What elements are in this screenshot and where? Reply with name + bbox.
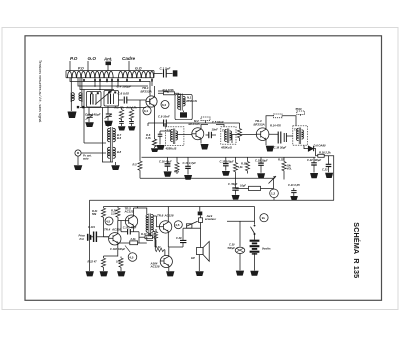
chassis blob under C19: [257, 173, 265, 178]
wire tap x107: [106, 78, 108, 82]
capacitor C101: [94, 232, 109, 243]
diode D6 label: [314, 143, 326, 147]
svg-text:C.16 40µF: C.16 40µF: [159, 159, 172, 163]
svg-text:5510: 5510: [296, 107, 302, 111]
chassis blob under socket: [74, 165, 83, 170]
svg-text:100: 100: [116, 260, 121, 264]
wire tap x127: [126, 78, 128, 82]
chassis blob under R13/C28: [232, 188, 238, 195]
resistor R23: [119, 257, 123, 272]
chassis blob under TR2: [201, 144, 209, 150]
svg-text:P.U.: P.U.: [80, 237, 85, 241]
svg-text:4,5: 4,5: [106, 219, 111, 223]
battery label: [262, 246, 271, 250]
wire TR5 emitter down: [133, 228, 135, 232]
wire TR4 base: [104, 233, 110, 237]
C12 label: [212, 128, 219, 132]
resistor R25: [154, 229, 157, 247]
svg-text:C.103 47nF: C.103 47nF: [123, 226, 137, 230]
svg-text:B.8: B.8: [117, 150, 122, 154]
wire C1 to antenna terminal: [166, 73, 172, 75]
switch: [251, 225, 256, 240]
svg-text:R.25: R.25: [149, 233, 155, 237]
IF transformer T3 (dashed box): [221, 127, 236, 144]
svg-text:C. 50µF: C. 50µF: [228, 182, 238, 186]
pot wiper arrow: [269, 176, 277, 184]
resistor R9 (box): [130, 241, 147, 245]
capacitor C22 label: [307, 158, 321, 162]
wire TR2 emitter down: [200, 141, 202, 144]
svg-text:C.17 4,7µF: C.17 4,7µF: [183, 161, 197, 165]
transistor TR1: [146, 95, 157, 108]
variable capacitor C2 (tuning gang section 1): [87, 92, 102, 108]
svg-text:R.24: R.24: [155, 245, 161, 249]
capacitor C6: [124, 97, 127, 104]
svg-text:BF233A: BF233A: [189, 122, 200, 126]
trimmer C3: [86, 107, 94, 122]
wire T2 out to TR2: [178, 134, 192, 136]
wire y100 C4 to C6: [119, 99, 124, 101]
junction square b: [82, 106, 84, 108]
wire lever to C29: [183, 227, 186, 229]
node label Cadre: [122, 56, 135, 61]
transistor TR6 label: [157, 213, 174, 217]
wire x148 down: [147, 123, 149, 126]
T3 label 455: [220, 146, 232, 150]
R15 label: [278, 158, 292, 171]
svg-text:AC128: AC128: [150, 265, 160, 269]
pointer to 4,5: [125, 246, 130, 253]
trimmer box C10: [201, 117, 210, 123]
chassis blob under C5: [104, 121, 113, 126]
capacitor C1: [164, 70, 167, 78]
wire G.O stub: [87, 61, 89, 71]
voltage circle 1,2: [270, 189, 279, 198]
chassis blob under C15: [222, 171, 230, 176]
svg-text:2,2k: 2,2k: [130, 237, 137, 241]
svg-text:T.2: T.2: [167, 129, 171, 133]
capacitor C103: [121, 221, 139, 244]
chassis blob under TR3: [266, 146, 274, 152]
voltage circle 6,2: [161, 101, 169, 109]
wire tuning to osc coil bottom: [102, 108, 113, 163]
resistor R8: [175, 157, 179, 174]
svg-text:TR.4: TR.4: [104, 228, 111, 232]
wire TR1 collector up: [154, 86, 156, 95]
capacitor C9 label: [158, 115, 170, 119]
capacitor C17 label: [183, 161, 197, 165]
transistor TR4 label: [104, 228, 121, 232]
svg-text:4,5: 4,5: [129, 255, 134, 259]
wire R22 top: [104, 255, 118, 257]
wire L2 secondary down: [81, 102, 83, 108]
C18 label: [274, 146, 287, 150]
wire TR7 base: [154, 237, 156, 250]
C30 wire: [227, 221, 255, 246]
capacitor C15 label: [220, 159, 234, 163]
resistor R15 (volume): [282, 157, 286, 179]
transistor TR7 label: [150, 262, 160, 269]
svg-text:1,2: 1,2: [271, 192, 276, 196]
wire tap x118: [117, 78, 119, 86]
transistor TR3: [256, 127, 269, 142]
IF transformer T1: [178, 94, 186, 111]
resistor R4 label: [163, 88, 175, 92]
resistor R20: [116, 207, 120, 221]
svg-text:C.2=140pF: C.2=140pF: [85, 113, 101, 117]
node label P.O: [70, 56, 78, 61]
svg-text:C.18 30pF: C.18 30pF: [274, 146, 287, 150]
chassis blob under C3: [85, 122, 94, 127]
wire T5 bottom: [147, 237, 153, 241]
svg-text:C.1 2pF: C.1 2pF: [160, 67, 171, 71]
svg-text:SCHÉMA R 135: SCHÉMA R 135: [352, 222, 361, 278]
svg-text:G.O: G.O: [88, 56, 97, 61]
svg-text:D.6 OA90: D.6 OA90: [314, 143, 326, 147]
chassis blob under C22: [310, 173, 318, 178]
chassis blob under osc coil: [111, 165, 120, 170]
wire TR3 emitter down: [265, 142, 267, 146]
capacitor C15: [223, 157, 229, 170]
svg-text:56k: 56k: [92, 212, 97, 216]
chassis blob left rail: [86, 271, 94, 276]
capacitor C16 label: [159, 159, 172, 163]
resistor R22: [101, 256, 105, 271]
R2 label: [115, 106, 125, 110]
capacitor C29: [180, 228, 186, 247]
chassis blob under C28: [232, 195, 240, 200]
svg-text:10µF: 10µF: [240, 184, 246, 188]
trimmer box C21t: [297, 111, 305, 116]
IF transformer T1 can: [175, 95, 192, 120]
wire TR5 collector to T5: [134, 208, 147, 214]
transistor TR1 label: [141, 86, 152, 94]
junction dots: [94, 81, 119, 91]
svg-text:10nF: 10nF: [212, 128, 219, 132]
chassis blob under C7: [118, 126, 126, 130]
wire TR6/TR7 emitters join: [168, 234, 183, 255]
IF transformer T2 (dashed box): [165, 127, 184, 146]
blob under T1: [180, 112, 187, 117]
R18 label: [240, 184, 246, 188]
jack ring contact: [199, 215, 203, 247]
svg-text:455Kc/S: 455Kc/S: [220, 146, 232, 150]
svg-text:C.29: C.29: [176, 236, 182, 240]
capacitor C16 (electrolytic): [165, 157, 171, 171]
svg-text:BF233A: BF233A: [141, 90, 152, 94]
capacitor C8: [129, 122, 134, 127]
battery: [250, 241, 260, 254]
jack sleeve block: [198, 212, 203, 216]
wire T4 to D6: [304, 145, 308, 148]
transistor TR5 label: [124, 207, 134, 214]
C102 label: [110, 247, 125, 251]
chassis blob under R6: [151, 148, 159, 152]
ferrite rod antenna L1 (cadre): [66, 66, 154, 78]
audio top rail: [90, 199, 335, 201]
wire TR3 collector up: [266, 116, 274, 127]
svg-text:AC126: AC126: [111, 228, 121, 232]
wire C30 down: [239, 254, 241, 271]
wire bus y86: [78, 78, 148, 86]
wire y143 to osc coil: [84, 142, 106, 144]
resistor R16 (box): [318, 154, 324, 157]
C23 label: [322, 168, 328, 172]
node label G.O: [88, 56, 97, 61]
resistor R17: [245, 157, 249, 173]
svg-text:Ant.: Ant.: [103, 57, 112, 62]
capacitor C30 label: [228, 243, 236, 250]
svg-text:R.22 47: R.22 47: [88, 260, 98, 264]
capacitor C22: [311, 157, 317, 172]
svg-text:C.15 100µF: C.15 100µF: [220, 159, 234, 163]
resistor R21 label: [92, 209, 98, 216]
wire P.O stub: [69, 61, 71, 71]
wire T1 primary top: [158, 91, 179, 95]
transistor TR3 label: [254, 119, 265, 127]
C6 label: [118, 92, 130, 96]
resistor R7: [237, 123, 241, 141]
svg-text:Tensions mesurées au V.é., san: Tensions mesurées au V.é., sans signal.: [38, 60, 42, 123]
jack feed from rail: [199, 207, 201, 212]
chassis blob under R22: [100, 271, 108, 276]
svg-text:R.14 470: R.14 470: [270, 124, 281, 128]
audio left rail: [89, 200, 91, 271]
svg-text:AC128: AC128: [164, 213, 174, 217]
wire TR6 base: [157, 216, 160, 227]
capacitor C19 label: [255, 159, 268, 163]
wire TR3 to C18/T4: [269, 134, 293, 136]
trimmer C5: [105, 106, 113, 121]
node label Ant: [103, 57, 112, 62]
oscillator coil L3/L4: [108, 127, 122, 162]
wire T3 out to TR3: [232, 135, 256, 144]
R9 label: [130, 237, 137, 241]
capacitor C18a: [278, 132, 281, 144]
R8 label: [173, 170, 180, 174]
svg-text:C.6 0,05: C.6 0,05: [118, 92, 130, 96]
jack label: [205, 214, 217, 221]
svg-text:VOL: VOL: [287, 167, 293, 171]
C29 label: [176, 236, 182, 240]
wire TR5 base from TR4: [118, 220, 125, 222]
svg-text:4,7k: 4,7k: [173, 170, 180, 174]
wire TR6 collector up: [167, 207, 169, 221]
chassis blob under battery: [250, 271, 258, 276]
variable capacitor C4 (tuning gang section 2): [104, 91, 119, 107]
wire tap x95: [94, 78, 96, 86]
wire T3 top: [216, 125, 224, 127]
svg-text:455Kc/S: 455Kc/S: [165, 147, 177, 151]
chassis blob under HP: [195, 271, 203, 276]
wire pot circle to rail: [273, 198, 275, 201]
transistor TR4: [109, 232, 121, 246]
wire bus y123: [148, 122, 210, 124]
C2 value label: [85, 113, 101, 117]
speaker HP: [197, 241, 210, 261]
svg-text:B.6: B.6: [117, 136, 122, 140]
chassis blob under C23: [325, 173, 333, 178]
capacitor C9: [164, 120, 167, 127]
wire TR5 collector up: [134, 207, 138, 215]
wire battery down: [254, 253, 256, 271]
svg-text:C.4 360pF: C.4 360pF: [117, 85, 132, 89]
antenna coupling coil L2: [71, 78, 82, 102]
svg-text:R.15: R.15: [278, 158, 284, 162]
svg-text:P.O: P.O: [70, 56, 78, 61]
capacitor C17: [185, 157, 191, 174]
svg-text:9v: 9v: [262, 216, 266, 220]
R25 label: [149, 233, 155, 237]
svg-text:500µF: 500µF: [228, 246, 236, 250]
svg-text:3,3k: 3,3k: [238, 165, 244, 169]
voltage circle 4,5 a: [105, 217, 113, 225]
svg-text:C.102 100µF: C.102 100µF: [110, 247, 125, 251]
resistor R21: [101, 207, 105, 233]
capacitor C7: [119, 122, 124, 127]
wire TR7 emitter down to chassis: [168, 268, 170, 271]
wire osc coil bottom to chassis: [115, 162, 117, 165]
transistor TR2 label: [189, 122, 200, 126]
resistor R10 (box): [139, 236, 155, 239]
TR4 collector wire: [118, 242, 130, 244]
chassis blob under C17: [184, 175, 192, 180]
wire T5 sec to TR6 base: [153, 216, 157, 247]
capacitor C19: [258, 157, 264, 173]
capacitor C30 (electrolytic can): [235, 247, 245, 253]
antenna input terminal: [173, 70, 178, 76]
svg-text:0,4: 0,4: [144, 109, 149, 113]
transistor TR5: [125, 214, 138, 228]
pot wire down: [273, 178, 275, 189]
gang arrow: [95, 90, 112, 104]
transistor TR7: [160, 254, 172, 267]
capacitor C12: [206, 132, 217, 138]
capacitor C18b: [284, 133, 286, 142]
wire tap x112: [111, 78, 113, 90]
svg-text:T.4: T.4: [294, 128, 298, 132]
wire R16 to right vertical: [324, 156, 334, 200]
MF label: [194, 119, 199, 123]
resistor R24 (horizontal): [155, 248, 165, 256]
wire y123 ext to R7: [210, 122, 240, 124]
capacitor C101 label: [88, 225, 95, 229]
socket label: [83, 154, 92, 161]
chassis blob under C16: [164, 171, 172, 176]
R22 label: [88, 260, 98, 264]
resistor R16 label: [319, 151, 331, 155]
chassis blob under C21: [290, 196, 298, 200]
transistor TR2: [192, 127, 204, 141]
capacitor C21: [291, 188, 296, 196]
car antenna socket: [75, 150, 106, 165]
svg-text:R.4 100k: R.4 100k: [163, 88, 175, 92]
wire C6 to TR1 base: [127, 99, 146, 101]
resistor R6: [152, 123, 156, 148]
chassis blob under C8: [128, 126, 136, 130]
svg-text:R.17: R.17: [241, 162, 247, 166]
resistor R6 label: [145, 133, 152, 140]
voltage circle 9v: [260, 214, 268, 222]
svg-text:9volts: 9volts: [262, 246, 271, 250]
PU input label: [79, 234, 86, 241]
wire T2 in: [160, 123, 171, 131]
svg-text:C.19 10µF: C.19 10µF: [255, 159, 268, 163]
wire tap x100: [99, 78, 101, 90]
wire Ant stub: [107, 65, 109, 71]
capacitor C11: [158, 131, 163, 145]
long vertical to volume line: [139, 100, 141, 161]
voltage circle 4,5 b: [128, 253, 137, 262]
wire D6 to R16: [314, 149, 318, 156]
svg-text:BF233A: BF233A: [254, 123, 265, 127]
R10 label: [141, 232, 152, 236]
wire L2 to chassis: [70, 102, 72, 111]
wire HP down: [198, 255, 200, 271]
HP label: [191, 256, 195, 260]
svg-text:auto: auto: [83, 156, 89, 160]
volume feed wire y178: [140, 177, 274, 179]
chassis blob under C30: [236, 271, 244, 276]
R13 label: [238, 165, 244, 169]
C21t label: [296, 107, 302, 111]
svg-text:C.23: C.23: [322, 168, 328, 172]
resistor R3: [129, 108, 133, 122]
wire bus y107.5: [80, 107, 146, 109]
wire TR4 emitter down: [117, 245, 119, 257]
capacitor C23: [326, 156, 332, 173]
svg-text:C.21 0,05: C.21 0,05: [288, 183, 300, 187]
capacitor C1 label: [160, 67, 171, 71]
wire osc coil top: [108, 123, 112, 127]
svg-text:4,5: 4,5: [175, 223, 180, 227]
resistor R20 label: [110, 209, 117, 216]
trimmer box C20: [274, 114, 282, 118]
main chassis bus y157: [142, 156, 316, 158]
transistor TR6: [159, 220, 171, 234]
R3 label: [127, 106, 138, 110]
svg-text:455Kc/S: 455Kc/S: [185, 99, 197, 103]
svg-text:R.5: R.5: [133, 163, 138, 167]
wire TR2 collector up-right: [201, 125, 208, 128]
wire Cadre stub: [128, 61, 130, 71]
svg-text:6,2: 6,2: [162, 103, 167, 107]
contact ticks under bar: [83, 79, 153, 82]
audio supply rail 2: [104, 206, 255, 208]
chassis blob under R23: [117, 271, 125, 276]
wire bus y89.5: [80, 78, 114, 90]
diode D6: [308, 146, 313, 151]
svg-text:C.101: C.101: [88, 225, 95, 229]
chassis blob under TR7: [166, 271, 174, 276]
chassis blob under C11: [157, 145, 165, 150]
svg-text:4,7k: 4,7k: [145, 136, 152, 140]
resistor R5: [138, 161, 142, 178]
long left wire to oscillator coil: [83, 90, 85, 144]
capacitor C21 label: [288, 183, 300, 187]
wire bus y81.5: [70, 78, 150, 96]
wire TR4 collector up: [117, 221, 119, 232]
C4 value label: [117, 85, 132, 89]
svg-text:G.O: G.O: [135, 66, 142, 70]
AGC wire y188.5: [236, 188, 274, 190]
svg-text:C.5 62pF: C.5 62pF: [212, 120, 224, 124]
svg-text:TR.6: TR.6: [157, 213, 164, 217]
svg-text:Cadre: Cadre: [122, 56, 135, 61]
wire TR1 emitter down: [154, 108, 156, 123]
svg-text:T.3: T.3: [222, 129, 226, 133]
svg-text:écouteur: écouteur: [205, 217, 217, 221]
